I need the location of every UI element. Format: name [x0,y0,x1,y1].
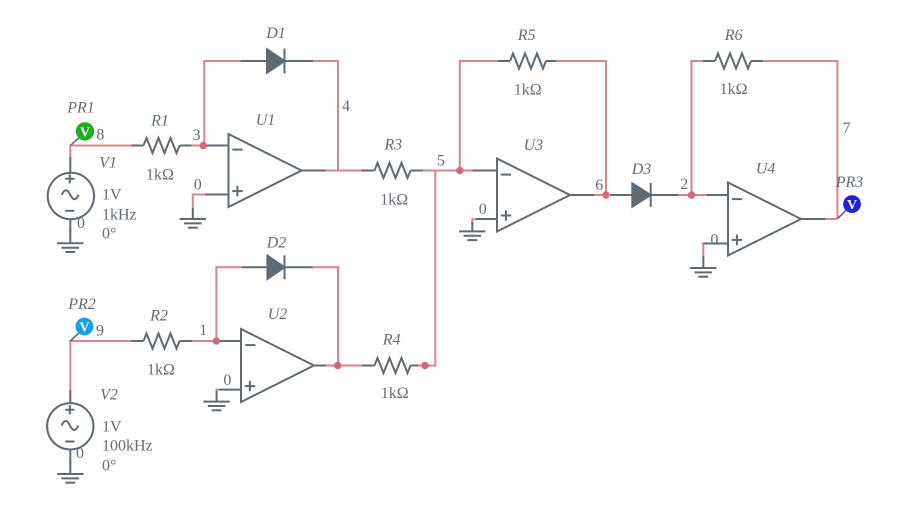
node 1 junction dot [213,337,220,344]
wire net5 branch bottom horizontal to R4 dot [425,365,436,367]
svg-text:1kΩ: 1kΩ [146,167,174,184]
svg-text:R6: R6 [724,27,743,44]
svg-text:V: V [847,198,857,213]
diode D1 [240,49,313,74]
probe PR1 [76,122,94,140]
svg-text:8: 8 [96,127,104,144]
wire net5 R3 to node 5 [423,170,460,172]
svg-text:R2: R2 [149,308,168,325]
wire U3 ground corner red tick [472,219,478,223]
diode D2 [242,255,313,279]
wire net5 R4 right lead red [418,365,425,367]
svg-text:1kΩ: 1kΩ [381,385,409,402]
svg-text:1kΩ: 1kΩ [380,192,408,209]
svg-text:U2: U2 [268,306,288,323]
wire netU2out U2 output to R4 [326,365,362,367]
ground for U2 [203,402,229,411]
svg-text:1kΩ: 1kΩ [147,362,175,379]
wire net6 R5 top right horizontal [556,60,607,62]
svg-text:D3: D3 [631,161,652,178]
node 6 junction dot [602,191,609,198]
wire net8 V1 to R1 horizontal [69,145,131,147]
U2 ground stem [216,391,218,402]
wire net9 V2 to R2 horizontal [69,340,131,342]
svg-text:0: 0 [710,231,718,248]
svg-text:V: V [79,321,89,336]
wire net3 D1 top left horizontal [203,60,240,62]
wire net6 R5 right leg down to node 6 [605,60,607,195]
svg-text:2: 2 [680,176,688,193]
resistor R1 [132,138,192,153]
svg-text:1kΩ: 1kΩ [720,81,748,98]
svg-text:1kΩ: 1kΩ [514,82,542,99]
ground for U4 [690,268,716,277]
op-amp U1 [203,134,326,207]
wire net2 R6 top left horizontal [691,60,704,62]
resistor R4 [362,358,418,373]
wire net6 U3 output to node 6 [594,194,606,196]
svg-text:R5: R5 [517,27,536,44]
svg-text:V2: V2 [100,387,118,404]
wire net5 node5 to U3 minus [460,170,473,172]
wire net9 V2 top vertical [69,340,71,390]
wire net8 V1 top vertical [69,145,71,158]
resistor R3 [362,163,424,178]
wire net4 D1 right leg down to U1 output [337,61,339,171]
svg-text:0°: 0° [102,457,116,474]
wire net1 D2 top left horizontal [215,266,241,268]
wire U1 ground stem red segment [192,194,194,209]
ground for U1 [180,219,206,228]
wire net5 branch down to R4 [434,171,436,366]
wire U1 plus lead red segment [193,194,206,196]
wire net7 R6 top right horizontal [763,60,838,62]
wire netU2out D2 top right horizontal [313,266,339,268]
node 5 junction dot [456,167,463,174]
svg-text:9: 9 [96,323,104,340]
wire net7 U4 output to corner [825,218,837,220]
svg-text:6: 6 [595,177,603,194]
svg-text:R4: R4 [382,332,401,349]
wire net4 D1 top right horizontal [313,60,339,62]
svg-text:PR1: PR1 [66,100,95,117]
U1 ground stem [192,208,194,219]
svg-text:3: 3 [193,127,201,144]
svg-text:PR2: PR2 [67,296,96,313]
svg-text:D1: D1 [265,25,286,42]
svg-text:1: 1 [199,322,207,339]
op-amp U4 [703,183,825,256]
wire net1 node 1 up to D2 [215,266,217,342]
probe PR1 pointer [71,138,80,146]
wire net1 R2 to node 1 [192,340,217,342]
wire net2 node 2 up to R6 [691,60,693,195]
voltage source V2 [47,390,93,474]
svg-text:D2: D2 [266,235,287,252]
wire net5 R5 top left horizontal [459,60,498,62]
svg-text:1V: 1V [102,418,122,435]
wire V1 ground red tick [69,229,71,234]
probe PR2 pointer [71,333,79,341]
node 2 junction dot [688,191,695,198]
svg-text:PR3: PR3 [835,174,864,191]
svg-text:5: 5 [437,153,445,170]
svg-text:1kHz: 1kHz [102,206,137,223]
wire net3 node 3 up to D1 [203,60,205,146]
node U2out junction dot [334,362,341,369]
wire netU2out D2 right leg down to U2 output [337,267,339,365]
svg-text:0: 0 [479,201,487,218]
svg-text:0: 0 [223,372,231,389]
probe PR3 [843,195,861,213]
node 5 junction dot at R4 [421,362,428,369]
svg-text:0°: 0° [102,225,116,242]
probe PR3 pointer [838,211,846,219]
diode D3 [610,183,678,207]
wire net3 R1 to node 3 [192,145,204,147]
svg-text:0: 0 [76,445,84,462]
ground for V1 [57,243,83,252]
svg-text:V: V [80,126,90,141]
U4 ground stem [702,256,704,268]
op-amp U2 [216,329,326,402]
wire V2 ground red tick [69,461,71,466]
svg-text:0: 0 [77,215,85,232]
svg-text:R3: R3 [383,137,402,154]
svg-text:7: 7 [843,120,851,137]
svg-text:U3: U3 [524,137,544,154]
op-amp U3 [472,159,594,232]
resistor R2 [132,334,192,349]
wire net2 D3 to node 2 [678,194,706,196]
wire U4 ground stem red segment [702,243,704,257]
svg-text:U4: U4 [756,161,776,178]
voltage source V1 [48,157,94,242]
svg-text:R1: R1 [150,113,169,130]
probe PR2 [76,318,94,336]
wire net4 U1 output to R3 [326,170,362,172]
resistor R6 [703,54,763,69]
ground for V2 [57,474,83,483]
wire U2 ground corner red tick [217,390,220,392]
wire net7 R6 right leg down to U4 output [836,60,838,219]
node 3 junction dot [200,142,207,149]
svg-text:U1: U1 [256,112,276,129]
svg-text:100kHz: 100kHz [102,437,153,454]
svg-text:4: 4 [342,98,350,115]
svg-text:V1: V1 [99,155,117,172]
U3 ground stem [471,222,473,231]
resistor R5 [498,54,556,69]
svg-text:0: 0 [194,177,202,194]
svg-text:1V: 1V [102,186,122,203]
wire net5 node5 up to R5 [459,60,461,172]
ground for U3 [459,231,485,240]
